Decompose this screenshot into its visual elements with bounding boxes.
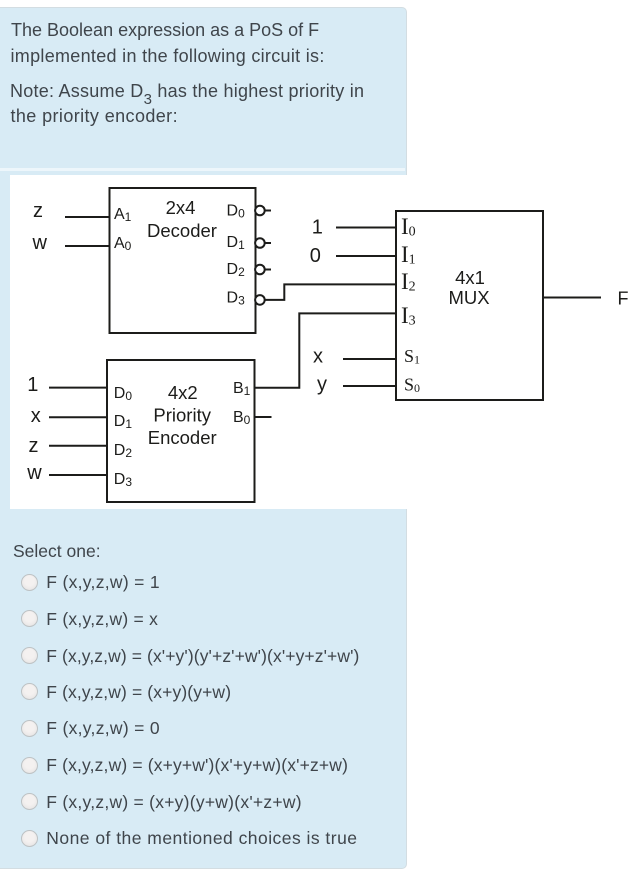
svg-text:4x1: 4x1 xyxy=(455,267,485,288)
svg-text:2x4: 2x4 xyxy=(166,197,196,218)
svg-text:1: 1 xyxy=(27,374,38,396)
svg-text:MUX: MUX xyxy=(448,287,489,308)
svg-text:y: y xyxy=(317,374,327,396)
svg-text:x: x xyxy=(313,346,323,368)
svg-text:z: z xyxy=(33,200,43,222)
svg-text:4x2: 4x2 xyxy=(168,382,198,403)
svg-text:F: F xyxy=(618,289,629,309)
svg-text:Priority: Priority xyxy=(153,405,211,426)
svg-text:Encoder: Encoder xyxy=(148,427,217,448)
svg-text:1: 1 xyxy=(312,217,323,239)
svg-text:w: w xyxy=(32,232,48,254)
svg-text:Decoder: Decoder xyxy=(147,220,217,241)
svg-text:z: z xyxy=(29,435,39,457)
svg-text:w: w xyxy=(26,462,42,484)
svg-text:0: 0 xyxy=(310,245,321,267)
svg-text:x: x xyxy=(31,405,41,427)
